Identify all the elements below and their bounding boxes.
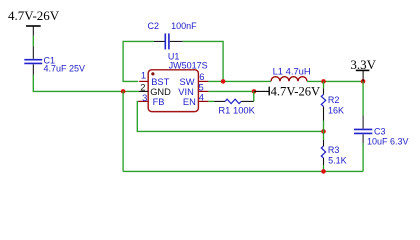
svg-text:R3: R3 xyxy=(328,145,340,155)
capacitor C3 xyxy=(354,115,372,143)
capacitor C2 xyxy=(154,33,183,49)
node junction SW/C2 xyxy=(221,79,226,84)
svg-text:L1 4.7uH: L1 4.7uH xyxy=(273,65,311,76)
svg-text:3: 3 xyxy=(142,92,147,103)
pin 3 FB stub xyxy=(138,100,148,102)
svg-text:4.7V-26V: 4.7V-26V xyxy=(8,8,60,23)
power port bar 4.7V-26V (right) xyxy=(254,87,269,96)
resistor R1 xyxy=(208,91,253,103)
power port bar 3.3V xyxy=(356,70,370,81)
wire C1 bottom to GND pin xyxy=(33,75,139,92)
svg-text:3.3V: 3.3V xyxy=(350,57,376,72)
svg-text:10uF 6.3V: 10uF 6.3V xyxy=(367,137,409,147)
capacitor C1 xyxy=(24,47,42,75)
svg-text:GND: GND xyxy=(150,87,171,97)
svg-text:4.7uF 25V: 4.7uF 25V xyxy=(44,64,86,74)
power port bar 4.7V-26V (top left) xyxy=(26,26,41,36)
pin 4 EN stub xyxy=(198,100,208,102)
svg-text:BST: BST xyxy=(151,77,169,87)
node junction 3.3V/C3 xyxy=(361,79,366,84)
pin 5 VIN stub xyxy=(198,90,208,92)
svg-text:5.1K: 5.1K xyxy=(328,155,347,165)
svg-text:R1 100K: R1 100K xyxy=(218,105,255,116)
inductor L1 xyxy=(271,77,307,82)
svg-text:C3: C3 xyxy=(374,126,386,136)
node junction C1/GND/ground-rail xyxy=(121,89,126,94)
wire BST to C2 left xyxy=(123,41,154,81)
wire SW to L1 xyxy=(208,80,271,82)
wire C3 to ground rail xyxy=(362,143,364,171)
wire FB to divider xyxy=(137,101,323,131)
svg-text:1: 1 xyxy=(141,70,146,81)
svg-text:6: 6 xyxy=(199,71,204,82)
pin 2 GND stub xyxy=(139,90,148,92)
resistor R2 xyxy=(321,81,325,131)
svg-text:FB: FB xyxy=(153,97,165,107)
wire C2 right to SW xyxy=(183,41,223,81)
node junction VIN/R1 xyxy=(252,89,257,94)
wire VIN to net label xyxy=(208,90,254,92)
wire L1 to output xyxy=(307,80,363,82)
svg-text:C2: C2 xyxy=(148,21,160,31)
svg-text:VIN: VIN xyxy=(178,87,194,97)
svg-text:4: 4 xyxy=(199,92,204,103)
svg-text:R2: R2 xyxy=(328,95,340,105)
wire output to C3 xyxy=(362,81,364,115)
svg-text:SW: SW xyxy=(180,77,195,87)
svg-text:JW5017S: JW5017S xyxy=(169,61,208,71)
wire ground drop xyxy=(122,91,124,171)
svg-text:2: 2 xyxy=(140,82,145,93)
op-amp U1 JW5017S body xyxy=(148,70,198,112)
node junction FB/R2/R3 xyxy=(321,129,326,134)
resistor R3 xyxy=(321,131,325,171)
pin 6 SW stub xyxy=(198,80,208,82)
svg-text:4.7V-26V: 4.7V-26V xyxy=(271,84,321,98)
wire power port to C1 xyxy=(32,36,34,47)
node junction L1/R2 xyxy=(321,79,326,84)
node junction R3/ground-rail xyxy=(321,169,326,174)
svg-text:EN: EN xyxy=(183,97,196,107)
pin 1 BST stub xyxy=(139,80,148,82)
svg-text:16K: 16K xyxy=(328,105,344,115)
wire ground bottom rail xyxy=(123,170,363,172)
svg-text:100nF: 100nF xyxy=(171,21,197,31)
